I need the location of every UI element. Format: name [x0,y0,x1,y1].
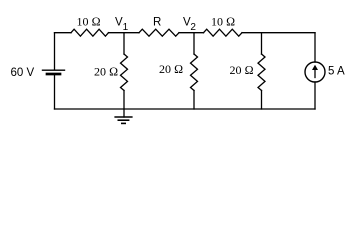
resistor R1 10ohm left [71,29,109,36]
svg-text:20 Ω: 20 Ω [94,65,118,79]
resistor R3 10ohm right [204,29,243,36]
resistor R4 20ohm branch V1 [121,54,128,91]
wire branch V2 lower [193,91,195,110]
svg-text:20 Ω: 20 Ω [230,63,254,77]
wire branch V2 upper [193,33,195,54]
resistor R2 R middle [139,29,179,36]
svg-text:10 Ω: 10 Ω [211,14,235,28]
wire right rail lower [314,82,316,109]
wire branch 3 lower [261,91,263,110]
wire right rail upper [314,33,316,62]
current source I1 5A [305,62,325,82]
svg-text:2: 2 [190,22,196,33]
wire branch V1 lower [123,91,125,110]
ground [115,109,132,123]
wire top bus V1 segment [109,32,140,34]
resistor R6 20ohm branch 3 [258,54,265,91]
wire top bus V2 segment [179,32,204,34]
svg-text:R: R [153,17,161,29]
voltage source V1 60V battery [43,70,65,74]
wire top bus right segment [242,32,315,34]
resistor R5 20ohm branch V2 [191,54,198,91]
wire left rail lower [54,75,56,109]
wire branch V1 upper [123,33,125,54]
wire left rail upper [54,33,56,70]
wire top bus left segment [55,32,72,34]
svg-text:60 V: 60 V [11,67,35,79]
wire bottom bus [55,108,316,110]
wire branch 3 upper [261,33,263,54]
svg-text:1: 1 [123,22,129,33]
svg-text:20 Ω: 20 Ω [159,62,183,76]
svg-text:10 Ω: 10 Ω [77,14,101,28]
svg-text:5 A: 5 A [328,65,345,77]
